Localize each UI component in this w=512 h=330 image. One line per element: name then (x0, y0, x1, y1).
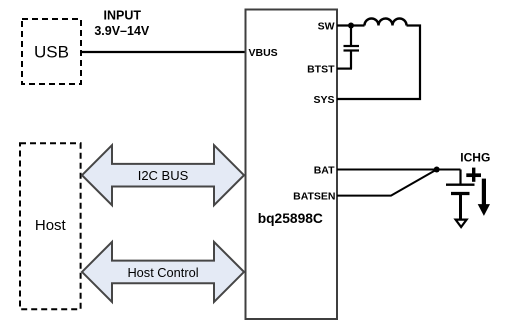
svg-text:bq25898C: bq25898C (258, 211, 323, 226)
svg-text:USB: USB (34, 43, 69, 62)
battery BT1 (446, 170, 475, 228)
capacitor bootstrap (SW to BTST) (344, 26, 360, 69)
svg-text:INPUT: INPUT (104, 9, 142, 23)
pin BTST (307, 63, 335, 75)
junction BAT node (434, 167, 440, 173)
wire inductor to SYS (337, 26, 420, 100)
wire VBUS input (81, 51, 245, 53)
plus sign battery polarity (466, 168, 481, 182)
pin SYS (313, 94, 334, 106)
wire BTST stub (337, 67, 352, 69)
arrow I2C BUS (bidirectional) (82, 145, 244, 205)
svg-text:ICHG: ICHG (460, 150, 490, 164)
pin VBUS (249, 47, 278, 59)
wire BAT (337, 169, 461, 171)
label INPUT 3.9V-14V (94, 9, 150, 39)
pin BAT (314, 164, 335, 176)
wire SW stub (337, 24, 365, 26)
svg-text:3.9V–14V: 3.9V–14V (94, 24, 150, 38)
USB box (22, 19, 81, 84)
svg-text:Host: Host (35, 217, 67, 234)
svg-text:BAT: BAT (314, 164, 335, 176)
pin SW (318, 20, 335, 32)
svg-text:SYS: SYS (313, 94, 334, 106)
inductor L1 (365, 19, 407, 26)
label ICHG (460, 150, 490, 164)
IC U1 bq25898C (246, 10, 338, 320)
junction SW node (348, 23, 354, 29)
svg-text:BATSEN: BATSEN (293, 190, 335, 202)
svg-text:VBUS: VBUS (249, 47, 278, 59)
arrow Host Control (bidirectional) (82, 242, 244, 302)
Host box (20, 143, 81, 309)
pin BATSEN (293, 190, 335, 202)
wire BATSEN (337, 170, 437, 196)
arrow ICHG current direction (478, 179, 490, 216)
svg-text:Host Control: Host Control (127, 265, 198, 280)
svg-text:I2C BUS: I2C BUS (138, 168, 189, 183)
svg-text:SW: SW (318, 20, 335, 32)
svg-text:BTST: BTST (307, 63, 335, 75)
